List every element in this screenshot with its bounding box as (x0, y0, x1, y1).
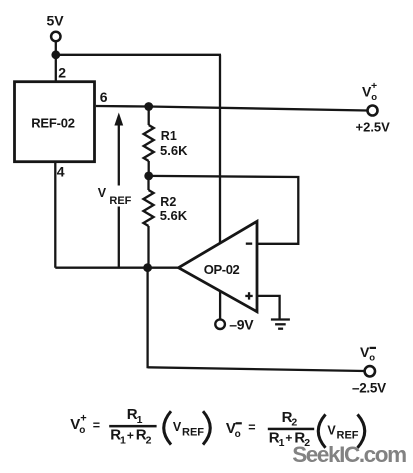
op-amp OP-02 (179, 221, 258, 311)
wire top rail to op-amp supply (56, 54, 221, 56)
svg-text:V: V (327, 423, 336, 437)
wire node B to op-amp inverting input (feedback) (149, 176, 299, 244)
svg-text:2: 2 (58, 65, 66, 81)
svg-text:REF: REF (182, 426, 204, 438)
wire node C to bottom rail (146, 268, 148, 369)
svg-text:+: + (80, 413, 86, 425)
svg-text:V: V (98, 186, 107, 200)
svg-text:+2.5V: +2.5V (356, 119, 391, 134)
svg-text:o: o (371, 92, 377, 103)
svg-text:+: + (127, 428, 134, 442)
label Vo- (360, 344, 376, 364)
wire pin 6 to node A (96, 105, 149, 108)
svg-text:4: 4 (57, 163, 65, 179)
resistor R2 (144, 176, 154, 268)
formula Vo- = R2/(R1+R2)(VREF) (226, 409, 365, 449)
label Vo+ (362, 80, 377, 103)
op-amp non-inverting input mark (245, 292, 252, 299)
svg-text:o: o (369, 353, 375, 364)
svg-text:V: V (173, 420, 182, 434)
junction node C (output / R2 / Vo- rail) (143, 263, 152, 272)
svg-text:1: 1 (279, 437, 285, 449)
wire junction to pin 2 (55, 55, 57, 81)
svg-text:–2.5V: –2.5V (352, 380, 386, 395)
IC REF-02 box (15, 82, 95, 162)
terminal -9V (215, 319, 225, 329)
wire bottom rail to Vo- terminal (148, 367, 365, 371)
junction node A (pin6 / R1 / output rail) (144, 102, 153, 111)
svg-text:1: 1 (120, 434, 126, 446)
wire 5V terminal to junction (55, 41, 57, 56)
op-amp inverting input mark (246, 243, 252, 245)
svg-text:REF-02: REF-02 (31, 115, 75, 130)
svg-text:–9V: –9V (229, 316, 254, 332)
wire op-amp V- supply stub (219, 291, 221, 320)
terminal 5V (51, 32, 60, 41)
resistor R1 (144, 107, 154, 176)
svg-text:OP-02: OP-02 (204, 262, 240, 277)
svg-text:REF: REF (109, 195, 131, 207)
wire output rail (pin4 to op-amp output) (55, 267, 180, 269)
svg-text:R1: R1 (161, 129, 177, 143)
svg-text:1: 1 (137, 414, 143, 426)
svg-text:SeekIC.com: SeekIC.com (292, 442, 406, 467)
formula Vo+ = R1/(R1+R2)(VREF) (70, 406, 210, 446)
svg-text:2: 2 (291, 417, 297, 429)
svg-text:2: 2 (146, 434, 152, 446)
terminal Vo+ (368, 106, 378, 116)
terminal Vo- (365, 366, 375, 376)
wire op-amp V+ supply drop (219, 55, 221, 244)
label VREF (95, 186, 137, 208)
VREF annotation arrow (114, 113, 123, 268)
wire non-inverting input to ground (257, 296, 280, 320)
svg-text:o: o (79, 425, 85, 436)
wire node A to Vo+ terminal (149, 107, 368, 111)
junction node B (R1/R2 divider midpoint) (144, 172, 153, 181)
svg-text:+: + (371, 80, 377, 92)
junction node 5V rail (51, 50, 60, 59)
wire pin 4 drop (54, 162, 56, 268)
svg-text:=: = (248, 420, 255, 434)
svg-text:6: 6 (100, 89, 108, 105)
svg-text:o: o (235, 429, 241, 440)
svg-text:REF: REF (337, 430, 359, 442)
svg-text:=: = (93, 419, 100, 433)
svg-text:5.6K: 5.6K (160, 208, 188, 223)
svg-text:R2: R2 (160, 195, 176, 209)
svg-text:5.6K: 5.6K (160, 143, 188, 158)
svg-text:5V: 5V (47, 12, 65, 28)
ground symbol (271, 320, 290, 329)
